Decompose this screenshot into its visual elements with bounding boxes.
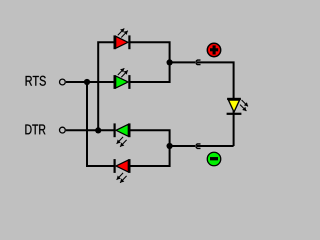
wire LED D3/D4 to negative rail [130,130,170,166]
wire DTR terminal to LED D3 cathode [66,129,115,131]
label RTS [26,76,46,86]
LED D2 green (points right, row 2) [115,68,130,89]
junction DTR node [95,127,101,133]
LED D3 green (points left, row 3) [115,123,130,146]
LED D5 yellow (points down, right rail) [227,99,248,114]
terminal - (negative supply) [207,152,221,166]
wire connector pin to right rail down to yellow LED [197,62,234,146]
plus sign [210,45,218,54]
connector pin (- line) [196,144,201,149]
wire bottom of right rail to connector pin [197,145,234,147]
label DTR [25,125,45,135]
junction positive rail [167,59,173,65]
terminal + (positive supply) [207,43,220,56]
junction negative rail [167,143,173,149]
wire RTS terminal to LED D2 anode [66,81,115,83]
terminal DTR [60,127,66,133]
minus sign [210,157,218,160]
LED D4 red (points left, row 4) [115,159,130,183]
wire RTS node down to row 4 and to LED D4 [87,82,115,166]
junction RTS node [84,79,90,85]
wire DTR node up to row 1 and to LED D1 anode [98,42,114,130]
wire positive rail to connector pin [170,61,196,63]
connector pin (+ line) [196,60,201,65]
wire LED D1/D2 cathodes to positive rail [129,42,170,82]
wire connector pin to negative rail junction [170,145,196,147]
LED D1 red (points right, row 1) [115,29,130,50]
terminal RTS [60,79,66,85]
